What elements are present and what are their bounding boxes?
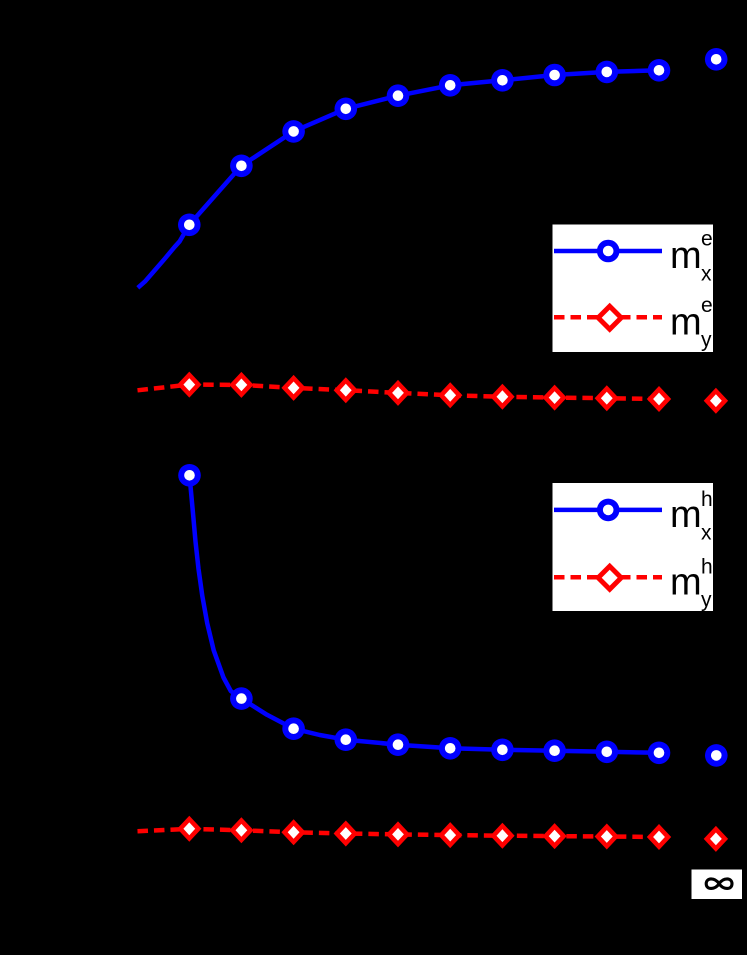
svg-text:h: h	[701, 488, 713, 511]
legend 1 red sample	[554, 315, 662, 320]
svg-text:m: m	[670, 302, 702, 344]
legend 2 box	[553, 483, 714, 611]
infinity glyph	[706, 879, 732, 888]
markers m_y^h diamonds	[177, 816, 728, 852]
svg-text:m: m	[670, 494, 702, 536]
curve m_x^h (bottom blue line)	[190, 475, 660, 753]
markers m_x^e circles	[178, 48, 728, 236]
svg-text:x: x	[701, 521, 712, 544]
svg-text:y: y	[701, 328, 712, 351]
svg-text:h: h	[701, 555, 713, 578]
infinity tick label box	[692, 870, 743, 900]
svg-text:m: m	[670, 235, 702, 277]
markers m_y^e diamonds	[177, 372, 728, 414]
legend 2 red sample	[554, 575, 662, 580]
markers m_x^h circles	[178, 464, 727, 767]
svg-text:m: m	[670, 561, 702, 603]
legend 2 blue sample	[554, 508, 662, 513]
curve m_y^h (bottom red dashed line)	[138, 829, 660, 837]
svg-text:e: e	[701, 228, 713, 251]
svg-text:x: x	[701, 263, 712, 286]
curve m_x^e (top blue line)	[138, 70, 659, 287]
curve m_y^e (top red dashed line)	[138, 385, 660, 399]
svg-text:y: y	[701, 588, 712, 611]
legend 1 blue sample	[554, 249, 662, 254]
legend 1 box	[553, 225, 714, 353]
svg-text:e: e	[701, 294, 713, 317]
